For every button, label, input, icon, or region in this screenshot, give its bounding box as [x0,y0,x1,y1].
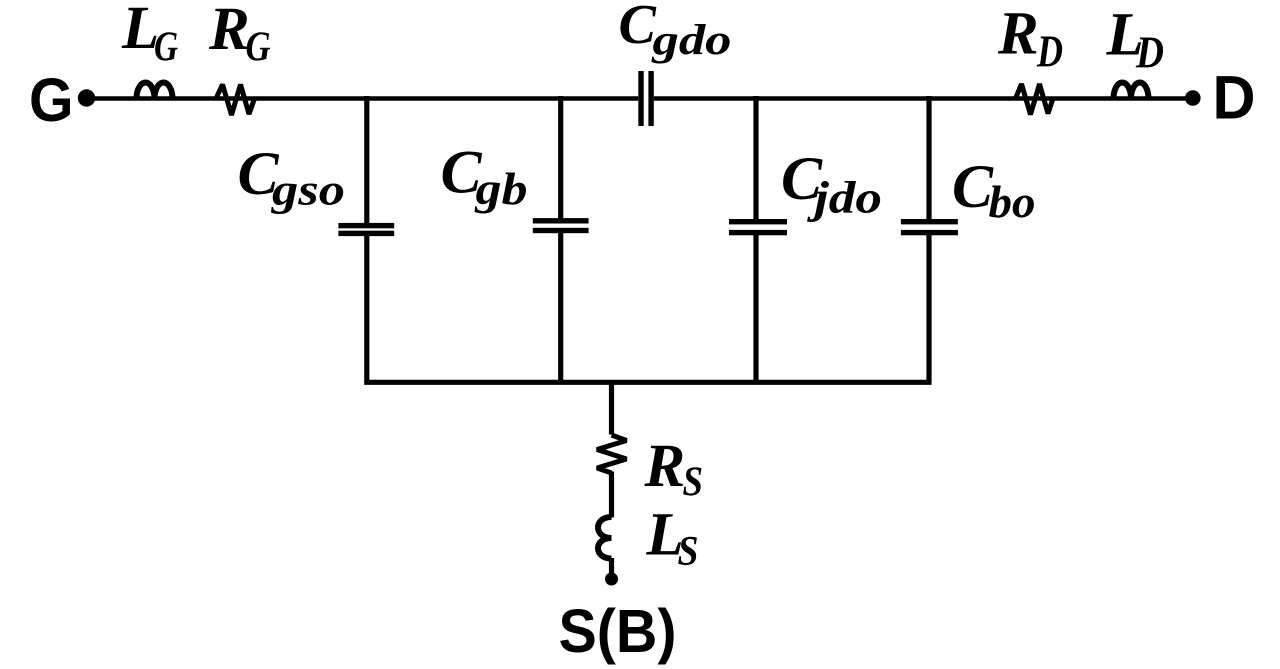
svg-text:R: R [644,433,686,500]
svg-text:jdo: jdo [807,173,882,223]
svg-text:gso: gso [271,166,345,215]
svg-text:C: C [619,0,657,56]
svg-text:R: R [997,1,1039,68]
svg-text:S(B): S(B) [559,597,677,665]
svg-text:D: D [1036,27,1063,77]
svg-text:G: G [154,24,178,70]
svg-text:gdo: gdo [651,16,731,64]
svg-text:R: R [208,0,250,63]
svg-text:G: G [29,66,74,134]
svg-text:bo: bo [989,177,1036,227]
svg-text:D: D [1135,27,1164,77]
svg-text:gb: gb [474,164,527,214]
svg-text:G: G [246,24,271,70]
svg-text:S: S [678,529,699,575]
svg-text:S: S [683,459,704,505]
svg-text:D: D [1213,64,1256,132]
